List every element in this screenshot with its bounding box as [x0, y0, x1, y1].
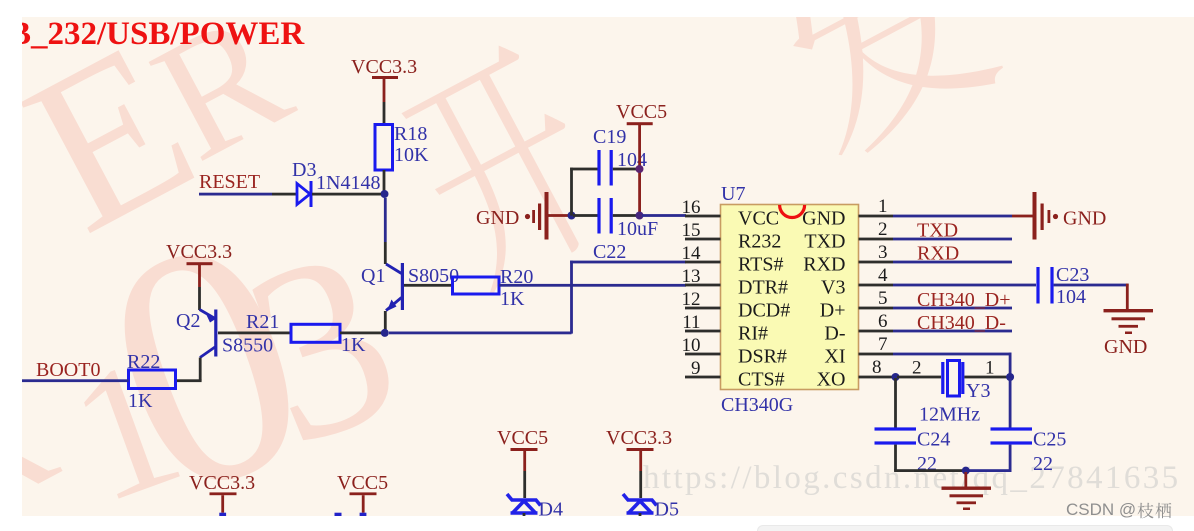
node stub (bottom left VCC5)	[360, 513, 367, 516]
svg-text:GND: GND	[1104, 336, 1147, 358]
svg-text:22: 22	[1033, 453, 1053, 475]
pin numbers left	[682, 197, 702, 379]
wire C25 bottom	[1009, 445, 1012, 471]
wire junction to Q1 collector	[384, 198, 387, 264]
wire D3 to junction	[312, 193, 381, 196]
svg-text:BOOT0: BOOT0	[36, 359, 100, 381]
svg-text:R232: R232	[738, 231, 781, 253]
svg-text:R22: R22	[127, 351, 160, 373]
node cap-left junction	[568, 212, 576, 220]
wire C25 leg	[1009, 378, 1012, 428]
svg-text:VCC5: VCC5	[616, 101, 667, 123]
IC U7 CH340G body	[721, 183, 859, 416]
wire R20 to pin13 DTR#	[499, 284, 686, 287]
svg-text:C25: C25	[1033, 429, 1066, 451]
svg-text:S8550: S8550	[222, 335, 273, 357]
svg-text:D3: D3	[292, 159, 316, 181]
svg-text:VCC5: VCC5	[337, 472, 388, 494]
pin stubs right (1..8)	[859, 215, 894, 379]
wire pin8 to Y3	[897, 376, 941, 379]
svg-text:8: 8	[872, 357, 882, 378]
svg-text:RI#: RI#	[738, 323, 768, 345]
svg-text:104: 104	[1056, 286, 1086, 308]
diode D5 (zener)	[623, 494, 657, 513]
svg-text:D-: D-	[824, 323, 845, 345]
wire pin1 to GND	[893, 215, 1033, 218]
wire pin5	[893, 307, 1012, 310]
svg-text:C24: C24	[917, 429, 950, 451]
svg-text:VCC: VCC	[738, 208, 779, 230]
svg-text:CH340_D-: CH340_D-	[917, 312, 1006, 334]
svg-text:RESET: RESET	[199, 171, 260, 193]
CSDN credit	[1066, 500, 1136, 520]
wire to pin16 VCC	[642, 214, 686, 217]
wire Q1 base to R20	[404, 284, 453, 287]
wire VCC3.3 to Q2 emitter	[198, 287, 201, 310]
svg-text:1K: 1K	[500, 288, 525, 310]
wire Y3 to riser	[964, 376, 1008, 379]
svg-text:Q1: Q1	[361, 265, 385, 287]
capacitor C19 104	[593, 126, 647, 186]
node stub (bottom left VCC3.3)	[219, 513, 226, 516]
node dot (bottom left VCC5)	[335, 513, 342, 516]
svg-text:R18: R18	[394, 123, 427, 145]
diode D3 1N4148	[292, 159, 380, 207]
svg-text:GND: GND	[1063, 208, 1106, 230]
svg-text:Y3: Y3	[966, 380, 990, 402]
svg-text:RTS#: RTS#	[738, 254, 783, 276]
svg-text:U7: U7	[721, 183, 745, 205]
svg-text:VCC3.3: VCC3.3	[189, 472, 255, 494]
wire C24 bottom	[894, 445, 897, 471]
wire R21 to junction	[340, 332, 381, 335]
wire BOOT0	[22, 379, 129, 382]
power symbol VCC5 (caps)	[616, 101, 667, 216]
svg-text:6: 6	[878, 311, 888, 332]
pin names right	[802, 208, 845, 391]
resistor R18	[375, 123, 429, 170]
wire Q2 base to R21	[218, 332, 291, 335]
capacitor C23 104	[1036, 264, 1089, 308]
svg-text:TXD: TXD	[917, 220, 958, 242]
node Y3/pin7 junction	[1006, 373, 1014, 381]
svg-text:GND: GND	[802, 208, 845, 230]
svg-text:1: 1	[985, 358, 995, 379]
svg-text:15: 15	[682, 220, 701, 241]
svg-text:R21: R21	[246, 311, 279, 333]
wire VCC5 to D4	[523, 471, 526, 498]
svg-text:12MHz: 12MHz	[919, 404, 980, 426]
wire pin6	[893, 330, 1012, 333]
svg-text:D5: D5	[655, 499, 679, 517]
svg-text:DTR#: DTR#	[738, 277, 788, 299]
pin names left	[738, 208, 790, 391]
svg-text:16: 16	[682, 197, 701, 218]
earth ground GND (C23)	[1104, 309, 1154, 358]
svg-text:V3: V3	[821, 277, 845, 299]
transistor Q1 S8050	[361, 263, 459, 311]
svg-text:C23: C23	[1056, 264, 1089, 286]
node C19/VCC5 junction	[636, 165, 644, 173]
power symbol VCC3.3 (Q2)	[166, 241, 232, 287]
wire VCC3.3 to D5	[639, 471, 642, 498]
card edge bottom right	[757, 525, 1173, 531]
svg-text:10: 10	[682, 335, 701, 356]
svg-text:10K: 10K	[394, 144, 429, 166]
svg-text:1: 1	[878, 196, 888, 217]
node C22/pin16 junction	[636, 212, 644, 220]
power symbol VCC5 (bottom left)	[337, 472, 388, 513]
svg-text:https://blog.csdn.net/qq_27841: https://blog.csdn.net/qq_27841635	[643, 460, 1181, 496]
wire R18 top	[383, 102, 386, 125]
wire pin3 RXD	[893, 261, 1012, 264]
svg-text:C19: C19	[593, 126, 626, 148]
svg-text:2: 2	[878, 219, 888, 240]
svg-text:DSR#: DSR#	[738, 346, 787, 368]
svg-text:C22: C22	[593, 241, 626, 263]
wire pin4 to C23	[893, 284, 1036, 287]
svg-text:VCC3.3: VCC3.3	[606, 427, 672, 449]
svg-text:VCC3.3: VCC3.3	[166, 241, 232, 263]
svg-text:RXD: RXD	[917, 243, 959, 265]
svg-text:11: 11	[682, 312, 700, 333]
svg-text:1K: 1K	[341, 334, 366, 356]
wire pin2 TXD	[893, 238, 1012, 241]
svg-text:CTS#: CTS#	[738, 369, 785, 391]
earth ground GND (crystal)	[942, 472, 992, 510]
svg-text:CH340G: CH340G	[721, 394, 793, 416]
wire Q1 emitter down	[384, 311, 387, 333]
node pin8 junction	[892, 373, 900, 381]
svg-text:RXD: RXD	[803, 254, 845, 276]
resistor R21	[246, 311, 366, 356]
power symbol VCC3.3 (D5)	[606, 427, 672, 471]
wire R18 bottom	[383, 170, 386, 194]
svg-text:VCC3.3: VCC3.3	[351, 56, 417, 78]
svg-text:2: 2	[912, 358, 922, 379]
power symbol VCC5 (D4)	[497, 427, 548, 471]
wire caps left loop	[570, 168, 598, 217]
wire C24 leg	[894, 378, 897, 428]
pin stubs left (16..9)	[685, 215, 721, 379]
svg-text:1K: 1K	[128, 390, 153, 412]
svg-text:12: 12	[682, 289, 701, 310]
capacitor C25 22	[991, 427, 1067, 475]
pin numbers right	[872, 196, 888, 378]
svg-text:1N4148: 1N4148	[316, 172, 380, 194]
svg-text:14: 14	[682, 243, 702, 264]
resistor R20	[453, 266, 534, 310]
resistor R22	[127, 351, 176, 412]
svg-text:TXD: TXD	[804, 231, 845, 253]
wire crystal ground bus	[894, 469, 1011, 472]
wire pin7 to XI net	[893, 353, 1012, 377]
node R18/D3/Q1 junction	[381, 190, 389, 198]
svg-text:B_232/USB/POWER: B_232/USB/POWER	[22, 17, 305, 52]
svg-text:4: 4	[878, 265, 888, 286]
transistor Q2 S8550	[176, 310, 273, 358]
svg-text:DCD#: DCD#	[738, 300, 790, 322]
power symbol VCC3.3 (bottom left)	[189, 472, 255, 513]
svg-text:Q2: Q2	[176, 310, 200, 332]
diode D4 (zener)	[507, 494, 541, 513]
wire Q2 collector down to R22	[175, 358, 202, 383]
wire C22 right	[613, 214, 638, 217]
svg-text:7: 7	[878, 334, 888, 355]
wire RESET	[199, 193, 297, 196]
power ground GND (pin1, right)	[1033, 192, 1107, 240]
svg-text:D+: D+	[820, 300, 846, 322]
svg-text:5: 5	[878, 288, 888, 309]
svg-text:GND: GND	[476, 207, 519, 229]
wire junction to pin14 riser	[389, 261, 686, 335]
node ground bus junction	[962, 467, 970, 475]
wire C19 right	[613, 168, 638, 171]
power symbol VCC3.3 (top, R18)	[351, 56, 417, 102]
svg-text:CH340_D+: CH340_D+	[917, 289, 1011, 311]
svg-text:XO: XO	[817, 369, 846, 391]
svg-text:9: 9	[691, 358, 701, 379]
svg-text:VCC5: VCC5	[497, 427, 548, 449]
wire C23 to ground	[1054, 284, 1129, 310]
power ground GND (left of C19)	[476, 192, 571, 240]
capacitor C22 10uF	[593, 198, 658, 263]
svg-text:10uF: 10uF	[617, 218, 658, 240]
svg-text:3: 3	[878, 242, 888, 263]
capacitor C24 22	[875, 427, 951, 475]
node Q1/R21 junction	[381, 329, 389, 337]
svg-text:D4: D4	[539, 499, 563, 517]
svg-text:13: 13	[682, 266, 701, 287]
svg-text:XI: XI	[824, 346, 845, 368]
crystal Y3 12MHz	[919, 361, 990, 426]
